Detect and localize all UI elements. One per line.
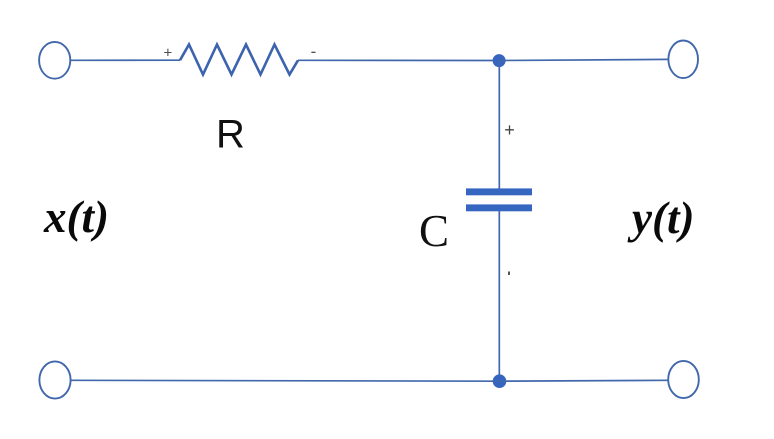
wire capacitor top lead: [498, 61, 500, 190]
wire bottom-left segment: [71, 379, 499, 382]
svg-text:x(t): x(t): [43, 192, 109, 242]
wire capacitor bottom lead: [498, 211, 500, 381]
wire top-right segment: [499, 59, 668, 60]
svg-text:C: C: [419, 206, 449, 256]
svg-text:y(t): y(t): [627, 193, 694, 243]
node junction bottom: [493, 374, 507, 388]
svg-text:-: -: [311, 42, 317, 61]
minus tick (capacitor bottom): [508, 272, 510, 276]
terminal bottom-left: [39, 361, 70, 398]
svg-text:R: R: [216, 113, 245, 157]
terminal top-right: [668, 41, 698, 79]
svg-text:+: +: [164, 45, 173, 62]
resistor R: [180, 45, 298, 75]
terminal top-left: [39, 42, 70, 79]
node junction top: [493, 54, 506, 67]
capacitor C top plate: [466, 188, 532, 195]
capacitor C bottom plate: [466, 204, 532, 211]
svg-text:+: +: [504, 120, 515, 140]
terminal bottom-right: [668, 361, 699, 398]
wire top-left segment: [70, 59, 180, 61]
wire top-middle segment: [298, 59, 499, 61]
wire bottom-right segment: [499, 379, 668, 382]
